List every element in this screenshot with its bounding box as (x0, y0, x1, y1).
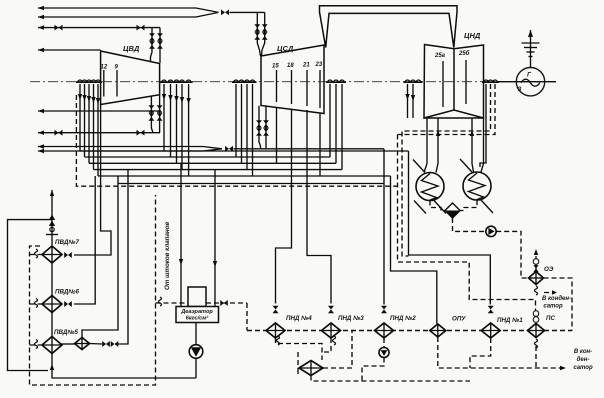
label from valve stems (164, 222, 171, 290)
label ЦСД (277, 44, 294, 53)
svg-text:Г: Г (527, 72, 532, 79)
wire HPC left seal drop 2 (82, 84, 86, 157)
wire IPC inlet downcomer right (262, 12, 265, 56)
wire LPC left seal drop 2 (411, 84, 415, 118)
wire LPC exhaust right inner (470, 118, 474, 172)
wire feedwater from pump (52, 353, 196, 379)
node OE inlet (533, 249, 539, 272)
wire extraction header y157 (85, 156, 331, 158)
wire IPC right seal drop 2 (335, 84, 337, 163)
wire IPC bottom inlet left (259, 106, 261, 149)
seal gland IPC right (326, 80, 346, 82)
valve main steam valve 1 (55, 25, 63, 31)
node condensate collector (445, 203, 460, 218)
heater PS (528, 315, 556, 338)
wire deaerator feed left (179, 163, 183, 306)
wire PND3 drain dashed (322, 336, 336, 352)
heater PND4 (266, 315, 312, 338)
svg-text:9: 9 (115, 65, 119, 71)
wire IPC left seal drop 4 (252, 84, 254, 176)
heater PVD6 (42, 289, 79, 313)
wire feedwater 7-6 (51, 263, 53, 296)
wire extraction branch to PVD5 drain cooler (82, 176, 118, 338)
node PS inlet circles (533, 311, 539, 323)
label to condenser lower (573, 349, 593, 371)
valve IPC inlet valves left (254, 24, 260, 40)
valve HPC bottom line valve left (55, 130, 63, 136)
valve main steam valve 2 (137, 25, 145, 31)
wire IPC left seal drop 3 (246, 84, 248, 170)
wire PND1 drain dashed (470, 338, 491, 368)
wire extraction to PND4 (276, 109, 292, 304)
wire HPC left seal drop 1 (78, 84, 82, 151)
condenser K2 (460, 159, 493, 213)
wire HPC left seal drop 5 (96, 84, 100, 176)
wire extraction to OPU (391, 176, 437, 324)
wire shaft centerline (30, 81, 556, 83)
wire IPC right seal drop 1 (329, 84, 331, 157)
node extraction tick 15 (272, 64, 279, 103)
svg-text:ПВД№5: ПВД№5 (54, 329, 78, 336)
wire PS drain dashed (535, 339, 538, 368)
wire extraction to PVD6 (74, 176, 95, 304)
wire band line y146.5 (lens top) (38, 144, 203, 148)
wire pump to OE (496, 231, 528, 278)
svg-text:23: 23 (315, 62, 323, 68)
wire steam line y111 (38, 109, 160, 113)
wire condensate to collector left (430, 201, 445, 211)
wire shaft to generator (497, 81, 556, 83)
svg-text:ЦНД: ЦНД (464, 31, 481, 40)
wire HPC exhaust to PVD7 (74, 105, 111, 256)
node extraction tick 23 (315, 62, 323, 108)
wire LPC exhaust left outer (424, 118, 427, 173)
wire band line y183.5 (118, 183, 384, 185)
turbine LPC cylinder ЦНД (424, 45, 484, 119)
wire LPC exhaust right outer (481, 118, 484, 172)
svg-text:ОПУ: ОПУ (452, 316, 466, 323)
node extraction tick 9 (115, 65, 119, 97)
wire extraction header y169.6 (94, 169, 343, 171)
wire HPC left seal drop 4 (91, 84, 95, 170)
generator G (516, 68, 544, 96)
svg-text:25а: 25а (434, 53, 446, 59)
pump feed pump (189, 345, 203, 359)
svg-text:18: 18 (287, 63, 294, 69)
valve PND3 valve (328, 306, 334, 314)
wire HPC bottom line y132.7 (38, 131, 160, 135)
svg-text:От штоков клапанов: От штоков клапанов (164, 222, 171, 290)
wire drain cooler box dashed (298, 331, 470, 382)
valve PND2 valve (381, 306, 387, 314)
valve PND1 valve (488, 306, 494, 314)
wire hot-reheat line A (y=8) (38, 6, 196, 10)
wire hot-reheat line B (y=17) (38, 15, 196, 19)
wire deaerator gland line right (206, 302, 247, 304)
svg-text:25б: 25б (458, 50, 470, 57)
valve IPC bottom admission valve (225, 146, 233, 152)
wire extraction to PND1 (409, 151, 491, 305)
wire reheat to IPC inlet (230, 11, 265, 13)
wire LPC exhaust left inner (436, 118, 440, 173)
deaerator column (188, 287, 206, 307)
svg-text:ЦСД: ЦСД (277, 44, 294, 53)
wire IPC tick15 drop (276, 108, 278, 164)
wire PVD5 links (60, 343, 103, 346)
node extraction tick 25b (458, 50, 470, 104)
svg-text:ПВД№7: ПВД№7 (55, 239, 79, 246)
valve HPC bottom valves left (149, 105, 155, 121)
deaerator tank (176, 307, 219, 323)
valve HPC top inlet valves right (157, 33, 163, 49)
svg-text:ПНД №2: ПНД №2 (390, 315, 416, 322)
valve PVD6 inlet valve (64, 301, 72, 307)
pipe crossover duct IPC to LPC (320, 6, 458, 48)
heater PND2 (375, 315, 417, 338)
svg-text:ПНД №4: ПНД №4 (286, 315, 312, 322)
wire HPC right seal drop 2 (168, 84, 172, 157)
wire IPC tick23 drop (319, 114, 321, 177)
heater OPU (430, 316, 466, 338)
heater PVD5 drain cooler (75, 338, 90, 350)
turbine IPC cylinder ЦСД (261, 45, 324, 114)
valve HPC top inlet valves left (149, 33, 155, 49)
valve IPC inlet valves right (262, 24, 268, 40)
wire to IPC bottom admission (234, 148, 385, 150)
wire OPU drain dashed (438, 337, 566, 370)
wire IPC left seal drop 2 (241, 84, 243, 163)
wire feedwater bypass (8, 220, 55, 371)
svg-text:ОЭ: ОЭ (544, 266, 554, 273)
wire HPC right seal drop 1 (162, 84, 166, 151)
wire deaerator downpipe (195, 323, 197, 346)
svg-text:ПНД №1: ПНД №1 (497, 317, 523, 324)
wire HPC right seal drop 4 (180, 84, 184, 170)
wire main condensate dashed (247, 330, 528, 332)
wire HPC right seal drop 3 (174, 84, 178, 163)
wire PVD7 drain stub (30, 249, 43, 258)
wire extraction header y151 (80, 150, 409, 152)
wire extraction header y163.3 (89, 162, 336, 164)
valve PVD7 inlet valve (64, 252, 72, 258)
svg-text:З: З (518, 87, 522, 93)
svg-text:15: 15 (272, 64, 279, 70)
svg-text:В конден-: В конден- (542, 296, 571, 302)
seal gland IPC left (232, 80, 257, 82)
svg-text:ЦВД: ЦВД (123, 44, 140, 53)
wire extraction to PVD5 (118, 170, 128, 344)
wire gland steam dashed P1 (402, 84, 491, 256)
heater PND3 (322, 315, 365, 338)
svg-text:ден-: ден- (577, 357, 590, 363)
node extraction tick 12 (101, 65, 108, 97)
node extraction tick 18 (287, 63, 294, 104)
wire HPC bottom inlet left (151, 96, 153, 133)
heater PND1 (481, 317, 523, 338)
heater PVD5 (42, 329, 78, 354)
svg-text:сатор: сатор (573, 365, 593, 371)
valve reheat stop valve (221, 10, 229, 16)
wire feedwater 6-5 (51, 313, 53, 337)
wire LPC left seal drop 1 (405, 84, 409, 118)
wire cold reheat from HPC (y=50) (38, 48, 101, 52)
node lens merge mid (203, 147, 222, 152)
seal gland LPC right (482, 80, 499, 82)
wire deaerator to PND4 dashed (246, 303, 248, 331)
wire deaerator feed right (213, 170, 217, 307)
wire PND2 drain pump dashed (383, 338, 385, 348)
wire collector to pump (453, 218, 486, 231)
node lens merge of reheat lines (196, 8, 219, 17)
turbine HPC cylinder ЦВД (101, 51, 160, 105)
wire HPC bottom inlet right (159, 95, 161, 132)
wire extraction to PND2 (383, 149, 385, 305)
wire main steam line (y=27.6) (38, 25, 160, 29)
wire HPC top inlet right (159, 28, 161, 63)
svg-text:12: 12 (101, 65, 108, 71)
wire IPC inlet downcomer left (257, 12, 260, 56)
wire PVD5 drain stub (30, 340, 43, 349)
wire main condensate dashed right (544, 330, 572, 332)
svg-text:В кон-: В кон- (574, 349, 592, 355)
pump condensate pump (486, 226, 496, 236)
heater PVD7 (42, 239, 79, 263)
wire gland steam to PS dashed (398, 135, 536, 311)
valve IPC bottom valves left (256, 120, 262, 136)
pump PND2 drain pump (379, 348, 389, 358)
valve HPC bottom valves right (157, 105, 163, 121)
condenser K1 (413, 160, 446, 214)
wire extraction to PND3 (307, 110, 331, 304)
heater PND drain cooler (299, 361, 323, 376)
label ЦВД (123, 44, 140, 53)
heater OE ejector cooler (529, 266, 554, 285)
svg-text:6кгс/см²: 6кгс/см² (186, 315, 209, 322)
wire deaerator gland line left (156, 297, 189, 306)
wire PVD6 drain stub (30, 299, 43, 308)
wire PND4 drain dashed (276, 336, 323, 360)
valve HPC bottom valve (137, 130, 145, 136)
label to condenser upper (535, 286, 572, 310)
svg-text:21: 21 (302, 63, 310, 69)
valve deaerator line valve (220, 300, 228, 306)
svg-text:ПС: ПС (546, 315, 555, 322)
label ЦНД (464, 31, 481, 40)
wire gland steam dashed P2 (398, 84, 496, 135)
wire OE outlet dashed (544, 278, 573, 331)
wire IPC bottom inlet right (265, 107, 267, 149)
svg-text:сатор: сатор (543, 304, 563, 310)
wire PND2 drain pump down (362, 358, 384, 382)
valve feedwater check valve (49, 215, 55, 232)
wire condensate to collector right (460, 200, 477, 211)
seal gland HPC right (160, 80, 193, 82)
svg-text:ПНД №3: ПНД №3 (338, 315, 364, 322)
valve PVD5 inlet valves (102, 341, 118, 347)
wire PVD enclosure dashed (30, 195, 156, 385)
wire LPC right seal drop solid (480, 84, 486, 167)
wire HPC top inlet left (151, 28, 153, 62)
node extraction tick 25a (434, 53, 446, 107)
wire band line y151 left (lens bottom) (38, 149, 203, 153)
wire pump down (195, 358, 197, 378)
wire HPC right seal drop 5 (186, 84, 190, 176)
wire feedwater outlet up (50, 190, 54, 246)
seal gland HPC left (76, 80, 102, 82)
svg-text:Деаэратор: Деаэратор (180, 309, 213, 315)
wire IPC right seal drop 3 (341, 84, 343, 170)
generator exciter symbol (522, 30, 540, 68)
valve IPC bottom valves right (263, 120, 269, 136)
node feedwater tee tick (46, 234, 58, 236)
seal gland LPC left (404, 80, 423, 82)
wire extraction header y176 (98, 175, 391, 177)
wire IPC left seal drop 1 (235, 84, 237, 157)
svg-text:ПВД№6: ПВД№6 (55, 289, 79, 296)
valve PND4 valve (273, 306, 279, 314)
node extraction tick 21 (302, 63, 310, 107)
wire plant boundary dashed (76, 95, 397, 186)
wire HPC left seal drop 3 (87, 84, 91, 163)
